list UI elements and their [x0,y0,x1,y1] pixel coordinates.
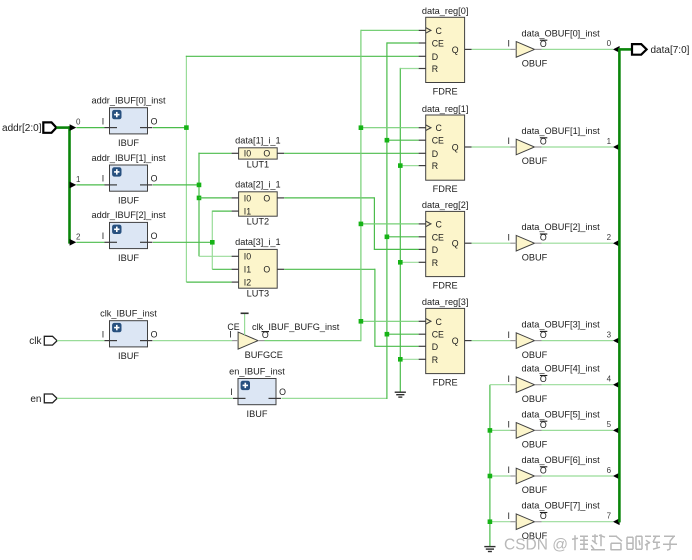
svg-text:C: C [436,219,443,229]
svg-text:R: R [432,355,438,365]
svg-text:Q: Q [452,143,459,153]
svg-text:I: I [230,387,232,397]
wire addr0 to data_reg[0] D [186,55,419,57]
net label data 6 [607,466,612,475]
svg-text:I: I [507,330,509,340]
net label data 5 [607,420,612,429]
wire net addr0 vertical [185,56,187,282]
svg-text:D: D [432,245,438,255]
wire clock to data_reg[1] C [361,127,419,129]
svg-text:O: O [263,149,270,159]
net label data 1 [607,137,612,146]
svg-text:data_OBUF[2]_inst: data_OBUF[2]_inst [522,222,601,232]
wire clk_IBUF to BUFGCE [153,340,232,342]
svg-text:OBUF: OBUF [522,59,548,69]
svg-text:7: 7 [607,512,612,521]
svg-text:D: D [432,52,438,62]
svg-text:addr_IBUF[1]_inst: addr_IBUF[1]_inst [91,153,165,163]
svg-text:data[3]_i_1: data[3]_i_1 [235,237,280,247]
svg-text:data_reg[3]: data_reg[3] [422,297,469,307]
svg-text:en: en [30,394,41,405]
wire const0 to OBUF6 [490,475,510,477]
junction addr0 [184,125,189,130]
svg-text:Q: Q [452,336,459,346]
buffer clk_IBUF_BUFG_inst (BUFGCE) [229,322,339,360]
wire addr2 to LUT2 I1 [212,210,231,212]
wire addr[0] to IBUF [76,127,104,129]
svg-text:O: O [151,231,158,241]
svg-text:1: 1 [76,175,81,184]
wire data_reg[2] Q to OBUF [472,242,511,244]
wire OBUF 7 output [542,521,614,523]
svg-text:3: 3 [607,330,612,339]
svg-text:data_OBUF[1]_inst: data_OBUF[1]_inst [522,126,601,136]
svg-text:I1: I1 [244,207,251,217]
wire const0 to OBUF4 [490,384,510,386]
wire LUT2 O vertical [373,197,375,249]
bus tap arrow data bit 5 [613,427,620,434]
svg-text:I: I [507,136,509,146]
svg-text:R: R [432,64,438,74]
ground for const0 net [484,547,495,552]
bus tap arrow data bit 4 [613,381,620,388]
svg-text:FDRE: FDRE [433,377,458,387]
input port en [30,394,57,405]
svg-text:data[1]_i_1: data[1]_i_1 [235,136,280,146]
wire BUFGCE output [265,340,361,342]
svg-text:addr_IBUF[2]_inst: addr_IBUF[2]_inst [91,210,165,220]
wire net addr1 vertical [198,153,200,257]
ground for reset net [395,392,406,397]
wire reset to data_reg[3] R [400,358,418,360]
junction reset data_reg[2] [398,260,403,265]
net label data 2 [607,233,612,242]
svg-text:CE: CE [432,330,444,340]
net label 1 [76,175,81,184]
svg-text:R: R [432,258,438,268]
svg-text:clk_IBUF_inst: clk_IBUF_inst [100,309,157,319]
svg-text:I: I [102,116,104,126]
svg-text:IBUF: IBUF [118,253,139,263]
svg-text:Q: Q [452,239,459,249]
wire const0 to OBUF5 [490,429,510,431]
junction addr1 a [197,183,202,188]
svg-text:D: D [432,342,438,352]
svg-text:R: R [432,161,438,171]
svg-text:IBUF: IBUF [247,409,268,419]
svg-text:data_OBUF[7]_inst: data_OBUF[7]_inst [522,501,601,511]
svg-text:data_reg[0]: data_reg[0] [422,6,469,16]
svg-text:2: 2 [76,232,81,241]
bus tap arrow bit 0 [70,124,77,131]
svg-text:OBUF: OBUF [522,440,548,450]
svg-text:data_OBUF[4]_inst: data_OBUF[4]_inst [522,364,601,374]
svg-text:I: I [102,329,104,339]
svg-text:5: 5 [607,420,612,429]
svg-text:I: I [102,174,104,184]
flip-flop data_reg[0] (FDRE) [419,6,472,96]
net label 2 [76,232,81,241]
bus tap arrow data bit 2 [613,240,620,247]
svg-text:O: O [263,193,270,203]
input port addr[2:0] [2,122,56,134]
svg-text:OBUF: OBUF [522,485,548,495]
svg-text:I: I [102,231,104,241]
wire addr[1] to IBUF [76,184,104,186]
wire const0 vertical [489,385,491,547]
wire addr0 to LUT3 I2 [186,281,231,283]
svg-text:I: I [507,420,509,430]
svg-text:C: C [436,317,443,327]
junction addr2 [210,240,215,245]
svg-text:LUT2: LUT2 [247,216,269,226]
svg-text:clk_IBUF_BUFG_inst: clk_IBUF_BUFG_inst [252,322,340,332]
svg-text:clk: clk [29,336,42,347]
flip-flop data_reg[2] (FDRE) [419,200,472,290]
svg-text:4: 4 [607,375,612,384]
buffer clk_IBUF_inst (IBUF) [100,309,157,362]
lut data[3]_i_1 (LUT3) [232,237,285,298]
svg-text:O: O [151,116,158,126]
watermark CSDN [504,534,677,553]
svg-text:data_OBUF[5]_inst: data_OBUF[5]_inst [522,409,601,419]
wire clock to data_reg[2] C [361,223,419,225]
wire addr1 to LUT1 I0 [198,152,231,154]
svg-text:data_OBUF[3]_inst: data_OBUF[3]_inst [522,320,601,330]
svg-text:data_OBUF[6]_inst: data_OBUF[6]_inst [522,455,601,465]
svg-text:0: 0 [607,39,612,48]
obuf data_OBUF[4]_inst (OBUF)) [507,364,600,404]
svg-text:en_IBUF_inst: en_IBUF_inst [229,366,285,376]
wire clock to data_reg[3] C [361,320,419,322]
svg-text:I1: I1 [244,265,251,275]
svg-text:FDRE: FDRE [433,184,458,194]
svg-text:addr_IBUF[0]_inst: addr_IBUF[0]_inst [91,96,165,106]
svg-text:data_reg[1]: data_reg[1] [422,104,469,114]
bus tap arrow bit 1 [70,182,77,189]
wire clock vertical [360,30,362,341]
svg-text:O: O [279,387,286,397]
junction addr1 b [197,196,202,201]
wire data_reg[1] Q to OBUF [472,146,511,148]
buffer en_IBUF_inst (IBUF) [229,366,286,419]
wire OBUF 1 output [542,146,614,148]
svg-text:2: 2 [607,233,612,242]
svg-text:0: 0 [76,118,81,127]
svg-text:CE: CE [432,232,444,242]
wire data_reg[0] Q to OBUF [472,48,511,50]
wire reset to data_reg[1] R [400,165,418,167]
svg-text:BUFGCE: BUFGCE [245,350,283,360]
svg-text:IBUF: IBUF [118,351,139,361]
wire addr2 to LUT3 I1 [212,268,231,270]
wire LUT2 O to data_reg[2] D [374,248,419,250]
junction const0 OBUF7 [488,519,493,524]
svg-text:I: I [507,232,509,242]
svg-text:O: O [151,329,158,339]
svg-text:addr[2:0]: addr[2:0] [2,123,42,134]
wire enable vertical [386,42,388,399]
wire data_reg[3] Q to OBUF [472,340,511,342]
output port data[7:0] [632,44,690,56]
svg-text:OBUF: OBUF [522,394,548,404]
obuf data_OBUF[5]_inst (OBUF)) [507,409,600,449]
svg-text:FDRE: FDRE [433,280,458,290]
svg-text:OBUF: OBUF [522,252,548,262]
svg-text:I0: I0 [244,149,251,159]
wire addr1 to LUT2 I0 [199,197,232,199]
input port clk [29,336,57,347]
junction clock data_reg[2] [359,222,364,227]
wire en_IBUF output [282,397,387,399]
wire en port to IBUF [57,397,233,399]
svg-text:CSDN @: CSDN @ [504,537,568,554]
lut data[2]_i_1 (LUT2) [232,180,285,227]
wire LUT3 O horizontal [284,268,375,270]
junction clock data_reg[1] [359,125,364,130]
svg-text:C: C [436,123,443,133]
wire LUT3 O vertical [374,269,376,347]
bus tap arrow bit 2 [70,239,77,246]
wire addr1 to LUT3 I0 [199,255,232,257]
svg-text:data_reg[2]: data_reg[2] [422,200,469,210]
buffer addr_IBUF[2]_inst (IBUF) [91,210,165,263]
flip-flop data_reg[1] (FDRE) [419,104,472,194]
junction reset data_reg[3] [398,357,403,362]
wire reset to data_reg[0] R [400,68,418,70]
obuf data_OBUF[0]_inst (OBUF)) [507,28,600,68]
svg-text:data_OBUF[0]_inst: data_OBUF[0]_inst [522,28,601,38]
net label data 4 [607,375,612,384]
obuf data_OBUF[1]_inst (OBUF)) [507,126,600,166]
wire enable to data_reg[3] CE [387,333,419,335]
junction const0 OBUF5 [488,428,493,433]
bus tap arrow data bit 1 [613,144,620,151]
svg-text:I: I [507,511,509,521]
svg-text:D: D [432,149,438,159]
obuf data_OBUF[3]_inst (OBUF)) [507,320,600,360]
svg-text:I0: I0 [244,252,251,262]
obuf data_OBUF[2]_inst (OBUF)) [507,222,600,262]
svg-text:LUT1: LUT1 [247,159,269,169]
junction enable data_reg[3] [385,332,390,337]
bus tap arrow data bit 7 [613,518,620,525]
pin CE stub of BUFGCE [227,313,248,335]
svg-text:data[7:0]: data[7:0] [651,45,690,56]
bus addr[2:0] [56,126,69,243]
obuf data_OBUF[6]_inst (OBUF)) [507,455,600,495]
svg-text:I: I [507,374,509,384]
net label 0 [76,118,81,127]
wire addr_IBUF[0] output [153,127,186,129]
obuf data_OBUF[7]_inst (OBUF)) [507,501,600,541]
wire clock to data_reg[0] C [361,29,419,31]
svg-text:LUT3: LUT3 [247,288,269,298]
wire addr_IBUF[1] output [153,184,199,186]
wire OBUF 2 output [542,242,614,244]
svg-text:CE: CE [432,39,444,49]
svg-text:O: O [263,265,270,275]
wire enable to data_reg[0] CE [387,42,419,44]
wire reset to data_reg[2] R [400,261,418,263]
wire reset vertical [399,68,401,392]
svg-text:C: C [436,26,443,36]
wire OBUF 5 output [542,429,614,431]
bus data[7:0] [618,49,632,522]
net label data 7 [607,512,612,521]
svg-text:OBUF: OBUF [522,156,548,166]
junction clock data_reg[3] [359,319,364,324]
wire OBUF 4 output [542,384,614,386]
junction const0 OBUF6 [488,474,493,479]
bus tap arrow data bit 6 [613,473,620,480]
wire LUT3 O to data_reg[3] D [374,345,418,347]
net label data 0 [607,39,612,48]
svg-text:1: 1 [607,137,612,146]
wire enable to data_reg[1] CE [387,139,419,141]
wire const0 to OBUF7 [490,521,510,523]
flip-flop data_reg[3] (FDRE) [419,297,472,387]
buffer addr_IBUF[1]_inst (IBUF) [91,153,165,206]
junction reset data_reg[1] [398,163,403,168]
wire OBUF 0 output [542,48,614,50]
junction enable data_reg[1] [385,138,390,143]
net label data 3 [607,330,612,339]
wire net addr2 vertical [211,211,213,270]
buffer addr_IBUF[0]_inst (IBUF) [91,96,165,149]
wire LUT1 O to data_reg[1] D [284,152,418,154]
svg-text:IBUF: IBUF [118,196,139,206]
svg-text:OBUF: OBUF [522,350,548,360]
wire clk port to IBUF [57,340,104,342]
svg-text:CE: CE [227,322,239,332]
svg-text:Q: Q [452,45,459,55]
svg-text:6: 6 [607,466,612,475]
wire addr[2] to IBUF [76,241,104,243]
svg-text:I: I [507,465,509,475]
svg-text:data[2]_i_1: data[2]_i_1 [235,180,280,190]
wire OBUF 6 output [542,475,614,477]
bus tap arrow data bit 3 [613,337,620,344]
junction enable data_reg[2] [385,235,390,240]
wire OBUF 3 output [542,340,614,342]
wire addr_IBUF[2] output [153,241,212,243]
wire LUT2 O horizontal [284,197,374,199]
svg-text:CE: CE [432,136,444,146]
svg-text:I2: I2 [244,278,251,288]
svg-text:FDRE: FDRE [433,86,458,96]
svg-text:I: I [507,39,509,49]
bus tap arrow data bit 0 [613,46,620,53]
svg-text:IBUF: IBUF [118,138,139,148]
svg-text:I0: I0 [244,193,251,203]
svg-text:O: O [151,174,158,184]
lut data[1]_i_1 (LUT1) [232,136,285,170]
wire enable to data_reg[2] CE [387,236,419,238]
